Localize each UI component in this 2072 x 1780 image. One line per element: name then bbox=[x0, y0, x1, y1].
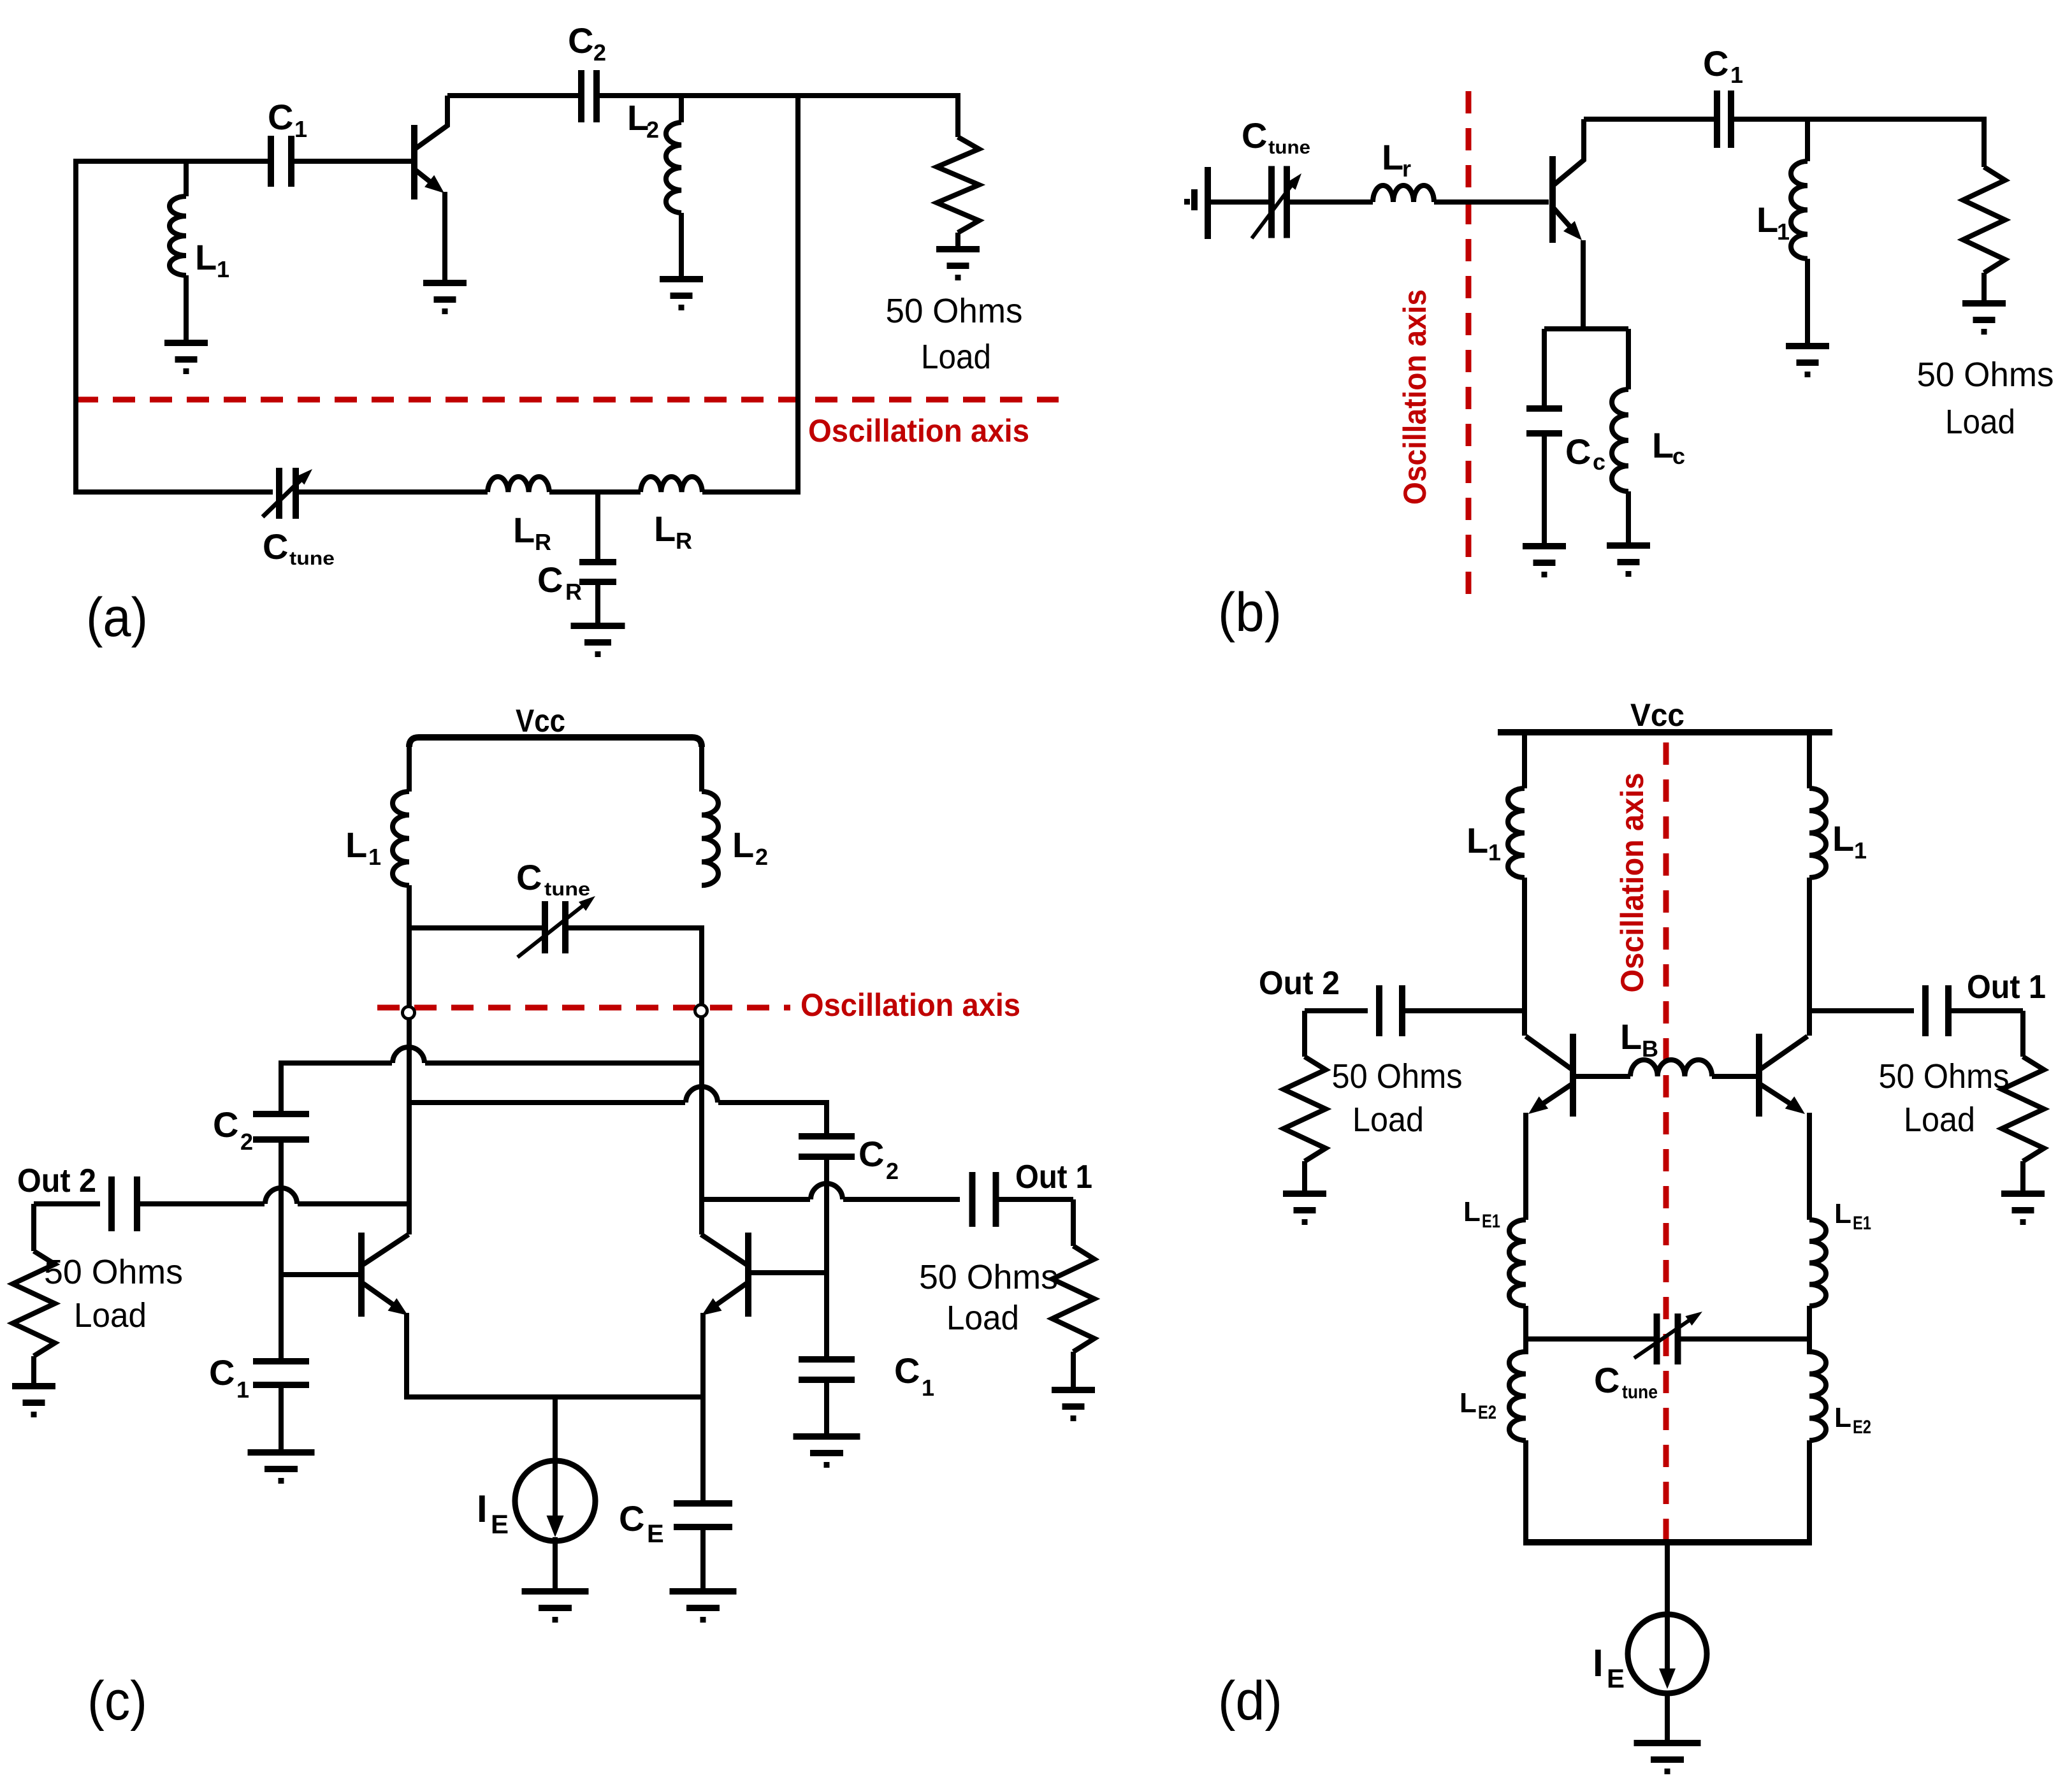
capacitor CE (c) bbox=[674, 1500, 732, 1507]
wire Ctune branch right (d) bbox=[1678, 1336, 1809, 1342]
capacitor CR (a) bbox=[579, 559, 616, 565]
ground Lc (b) bbox=[1607, 542, 1650, 549]
wire LE1 to Ctune left (d) bbox=[1523, 1306, 1528, 1342]
svg-text:c: c bbox=[1672, 443, 1685, 469]
svg-text:Load: Load bbox=[921, 338, 991, 376]
capacitor C1 right (c) bbox=[799, 1356, 855, 1363]
wire LE2 to rail right (d) bbox=[1807, 1440, 1812, 1545]
svg-text:L: L bbox=[345, 825, 367, 865]
svg-text:L: L bbox=[654, 509, 676, 549]
svg-text:C: C bbox=[213, 1104, 238, 1145]
wire left vertical upper (c) bbox=[407, 925, 412, 1234]
svg-text:(a): (a) bbox=[86, 587, 148, 648]
wire C1 to base (a) bbox=[291, 159, 413, 164]
inductor Lr (b) bbox=[1373, 185, 1434, 202]
svg-text:1: 1 bbox=[217, 256, 229, 282]
svg-text:tune: tune bbox=[544, 879, 590, 900]
ground L2 (a) bbox=[660, 276, 703, 282]
resistor 50 Ohms load (b) bbox=[1963, 167, 2005, 273]
variable capacitor Ctune (c) bbox=[542, 901, 548, 953]
wire base right (c) bbox=[750, 1270, 827, 1275]
svg-text:1: 1 bbox=[294, 116, 307, 142]
wire IE to ground (d) bbox=[1665, 1691, 1670, 1743]
capacitor C2 (a) bbox=[578, 70, 584, 122]
svg-text:50 Ohms: 50 Ohms bbox=[886, 292, 1023, 330]
wire load corner (a) bbox=[955, 93, 960, 137]
svg-text:L: L bbox=[1832, 818, 1854, 858]
inductor L1 right (d) bbox=[1809, 788, 1826, 878]
ground IE (d) bbox=[1634, 1740, 1701, 1746]
wire L1 stem (a) bbox=[184, 161, 189, 196]
label Oscillation axis (b) bbox=[1397, 289, 1433, 505]
svg-text:L: L bbox=[1834, 1198, 1851, 1229]
svg-text:(b): (b) bbox=[1218, 582, 1282, 643]
ground load (a) bbox=[936, 246, 980, 252]
wire Out1 to load (c) bbox=[996, 1197, 1073, 1202]
wire cross-coupling B (c) bbox=[409, 1100, 685, 1105]
svg-text:R: R bbox=[676, 528, 692, 554]
wire IE to ground (c) bbox=[553, 1537, 558, 1591]
svg-text:Oscillation axis: Oscillation axis bbox=[808, 413, 1029, 449]
wire IE stem (c) bbox=[553, 1397, 558, 1462]
inductor L2 (c) bbox=[702, 792, 718, 885]
wire load to ground (a) bbox=[955, 233, 960, 249]
svg-text:C: C bbox=[894, 1350, 920, 1391]
svg-text:1: 1 bbox=[1777, 219, 1790, 245]
inductor LR1 (a) bbox=[488, 477, 549, 492]
transistor Q1 (a) bbox=[411, 125, 417, 199]
oscillation axis dashed line (b) bbox=[1466, 91, 1472, 607]
svg-text:50 Ohms: 50 Ohms bbox=[1917, 356, 2054, 394]
ground C1 left (c) bbox=[248, 1449, 315, 1456]
wire top right segment (b) bbox=[1731, 117, 1984, 122]
svg-text:1: 1 bbox=[1854, 837, 1867, 864]
ground L1 (a) bbox=[164, 340, 208, 346]
ground left (b) bbox=[1205, 167, 1211, 239]
svg-text:L: L bbox=[1382, 137, 1403, 177]
wire L1 to Ctune junction (c) bbox=[407, 885, 412, 930]
svg-text:2: 2 bbox=[755, 844, 768, 870]
svg-text:(c): (c) bbox=[87, 1670, 147, 1732]
svg-text:L: L bbox=[1757, 199, 1778, 240]
wire Cc to ground (b) bbox=[1542, 433, 1547, 546]
svg-text:Oscillation axis: Oscillation axis bbox=[1397, 289, 1433, 505]
transistor Q2 right (d) bbox=[1756, 1034, 1762, 1117]
wire C2 top stem left (c) bbox=[279, 1060, 284, 1114]
wire LR2 to feedback (a) bbox=[702, 489, 801, 495]
svg-text:R: R bbox=[565, 579, 582, 605]
inductor LB (d) bbox=[1630, 1060, 1712, 1076]
svg-text:Out 2: Out 2 bbox=[1259, 965, 1340, 1002]
coupling capacitor Out2 (d) bbox=[1376, 985, 1382, 1036]
svg-text:1: 1 bbox=[1730, 62, 1743, 88]
svg-text:2: 2 bbox=[593, 40, 606, 66]
ground L1 (b) bbox=[1786, 343, 1829, 349]
wire L1 stem left (d) bbox=[1522, 732, 1527, 788]
capacitor C1 (b) bbox=[1714, 90, 1720, 148]
wire base left to LB (d) bbox=[1575, 1074, 1630, 1079]
svg-text:2: 2 bbox=[886, 1158, 899, 1184]
wire LB to base right (d) bbox=[1712, 1074, 1757, 1079]
capacitor C1 (a) bbox=[268, 136, 274, 187]
svg-text:E: E bbox=[1607, 1663, 1625, 1693]
wire load corner left (d) bbox=[1302, 1011, 1307, 1057]
svg-text:tune: tune bbox=[289, 548, 335, 569]
svg-text:50 Ohms: 50 Ohms bbox=[44, 1253, 183, 1291]
wire CR stem (a) bbox=[595, 492, 600, 562]
wire L1 to collector right (d) bbox=[1807, 878, 1812, 1036]
wire load to ground left (d) bbox=[1302, 1161, 1307, 1194]
wire Out2 to collector (c) bbox=[137, 1201, 264, 1206]
wire L1 stem (b) bbox=[1805, 119, 1810, 161]
wire L2 to ground (a) bbox=[679, 213, 684, 279]
wire CE to ground (c) bbox=[700, 1527, 706, 1591]
svg-text:1: 1 bbox=[368, 844, 381, 870]
wire emitter vertical (b) bbox=[1581, 240, 1586, 331]
svg-text:50 Ohms: 50 Ohms bbox=[1332, 1057, 1463, 1096]
wire Out1 to load (d) bbox=[1948, 1008, 2023, 1013]
svg-text:1: 1 bbox=[922, 1375, 934, 1401]
wire base horizontal (a) bbox=[76, 159, 272, 164]
wire CE stem (c) bbox=[700, 1397, 706, 1503]
wire left vertical (a) bbox=[73, 159, 78, 495]
transistor Q1 left (c) bbox=[358, 1233, 365, 1317]
ground load left (d) bbox=[1283, 1190, 1326, 1197]
transistor Q1 (b) bbox=[1549, 156, 1556, 243]
svg-text:C: C bbox=[1703, 43, 1728, 83]
wire load corner left (c) bbox=[31, 1204, 36, 1251]
svg-text:I: I bbox=[1593, 1642, 1604, 1684]
wire L1 to ground (b) bbox=[1805, 259, 1810, 346]
wire C2-C1 vertical right (c) bbox=[824, 1157, 829, 1359]
wire feedback vertical (a) bbox=[795, 96, 801, 495]
oscillation axis dashed line (d) bbox=[1663, 742, 1669, 1539]
wire emitter vertical left (d) bbox=[1523, 1113, 1528, 1220]
ground load left (c) bbox=[12, 1383, 55, 1389]
inductor LE2 left (d) bbox=[1509, 1352, 1526, 1440]
Vcc rail (d) bbox=[1498, 729, 1832, 735]
svg-text:C: C bbox=[859, 1134, 884, 1174]
svg-text:L: L bbox=[1834, 1402, 1851, 1433]
svg-text:C: C bbox=[1594, 1360, 1619, 1400]
ground load right (c) bbox=[1052, 1387, 1095, 1393]
wire Ctune to LR1 (a) bbox=[294, 489, 488, 495]
inductor L1 left (d) bbox=[1508, 788, 1525, 878]
wire ground to Ctune (b) bbox=[1208, 199, 1271, 205]
wire Ctune branch left (d) bbox=[1526, 1336, 1657, 1342]
wire bottom rail (d) bbox=[1523, 1539, 1812, 1545]
svg-text:r: r bbox=[1402, 156, 1411, 182]
inductor LE1 right (d) bbox=[1809, 1220, 1826, 1306]
wire emitter vertical right (c) bbox=[700, 1313, 706, 1400]
oscillation axis dashed line (a) bbox=[76, 397, 1059, 403]
wire right vertical upper (c) bbox=[699, 925, 704, 1234]
svg-text:Out 2: Out 2 bbox=[17, 1162, 96, 1199]
svg-text:Out 1: Out 1 bbox=[1015, 1159, 1092, 1196]
wire emitter vertical right (d) bbox=[1807, 1113, 1812, 1220]
svg-text:L: L bbox=[1463, 1196, 1481, 1227]
svg-text:E: E bbox=[647, 1520, 664, 1548]
svg-text:L: L bbox=[195, 237, 217, 277]
svg-text:1: 1 bbox=[236, 1377, 249, 1403]
wire load to ground left (c) bbox=[31, 1356, 36, 1386]
wire Ctune branch right (c) bbox=[565, 925, 702, 930]
wire load corner right (d) bbox=[2020, 1011, 2025, 1057]
variable capacitor Ctune (a) bbox=[276, 468, 282, 519]
wire IE stem (d) bbox=[1665, 1542, 1670, 1614]
svg-text:C: C bbox=[209, 1352, 235, 1393]
svg-text:L: L bbox=[1620, 1017, 1642, 1057]
svg-text:Load: Load bbox=[1904, 1101, 1975, 1139]
wire Lc to ground (b) bbox=[1626, 491, 1631, 546]
inductor Lc (b) bbox=[1612, 389, 1628, 491]
transistor Q1 left (d) bbox=[1570, 1034, 1576, 1117]
wire C1 to ground left (c) bbox=[279, 1385, 284, 1452]
svg-text:E2: E2 bbox=[1478, 1402, 1496, 1423]
svg-text:L: L bbox=[1460, 1387, 1477, 1419]
transistor Q2 right (c) bbox=[745, 1233, 751, 1317]
wire Ctune branch left (c) bbox=[409, 925, 545, 930]
resistor 50 Ohms load right (d) bbox=[2002, 1057, 2044, 1161]
svg-text:E1: E1 bbox=[1853, 1213, 1871, 1234]
wire CR to ground (a) bbox=[595, 582, 600, 626]
wire emitter vertical left (c) bbox=[404, 1313, 409, 1400]
svg-text:L: L bbox=[513, 510, 535, 550]
wire LE1 to Ctune right (d) bbox=[1807, 1306, 1812, 1342]
wire load to ground (b) bbox=[1981, 273, 1987, 303]
svg-text:Out 1: Out 1 bbox=[1967, 969, 2046, 1006]
svg-text:Vcc: Vcc bbox=[1630, 697, 1684, 733]
svg-text:2: 2 bbox=[240, 1129, 253, 1155]
svg-text:Vcc: Vcc bbox=[516, 703, 565, 739]
svg-text:C: C bbox=[568, 20, 593, 61]
ground CE (c) bbox=[670, 1588, 737, 1595]
svg-text:C: C bbox=[619, 1498, 644, 1538]
inductor LE2 right (d) bbox=[1809, 1352, 1826, 1440]
coupling capacitor Out2 (c) bbox=[108, 1176, 115, 1231]
wire L1 stem right (d) bbox=[1807, 732, 1812, 788]
svg-text:L: L bbox=[1467, 820, 1488, 860]
svg-text:E2: E2 bbox=[1853, 1417, 1871, 1438]
inductor L1 (c) bbox=[393, 792, 409, 885]
wire Out2 lead (c) bbox=[34, 1201, 100, 1206]
svg-text:E1: E1 bbox=[1482, 1211, 1500, 1232]
svg-text:Load: Load bbox=[1352, 1101, 1424, 1139]
wire Lr to base (b) bbox=[1434, 199, 1549, 205]
inductor L1 (a) bbox=[170, 196, 186, 275]
ground IE (c) bbox=[522, 1588, 589, 1595]
wire LR1 to LR2 (a) bbox=[549, 489, 641, 495]
wire load corner (b) bbox=[1981, 117, 1987, 167]
svg-text:C: C bbox=[1565, 431, 1591, 472]
svg-text:L: L bbox=[732, 825, 754, 865]
capacitor C1 left (c) bbox=[253, 1358, 309, 1364]
ground CR (a) bbox=[571, 623, 625, 629]
ground load right (d) bbox=[2001, 1190, 2045, 1197]
label Oscillation axis (d) bbox=[1614, 773, 1650, 993]
svg-text:tune: tune bbox=[1268, 137, 1310, 158]
svg-text:Load: Load bbox=[1945, 403, 2015, 441]
inductor LR2 (a) bbox=[641, 477, 702, 492]
ground load (b) bbox=[1962, 300, 2006, 307]
wire load corner right (c) bbox=[1071, 1199, 1076, 1246]
resistor 50 Ohms load left (c) bbox=[13, 1251, 55, 1356]
wire Out1 from collector (c) bbox=[701, 1197, 810, 1202]
svg-text:Oscillation axis: Oscillation axis bbox=[1614, 773, 1650, 993]
capacitor C2 right (c) bbox=[799, 1133, 855, 1140]
wire L2 stem (c) bbox=[699, 742, 704, 792]
resistor 50 Ohms load right (c) bbox=[1052, 1246, 1094, 1352]
svg-text:C: C bbox=[516, 857, 542, 897]
wire top right segment (a) bbox=[600, 93, 958, 98]
inductor LE1 left (d) bbox=[1509, 1220, 1526, 1306]
ground C1 right (c) bbox=[793, 1433, 860, 1440]
svg-text:C: C bbox=[263, 526, 288, 567]
variable capacitor Ctune (b) bbox=[1268, 166, 1275, 238]
ground Cc (b) bbox=[1523, 543, 1566, 549]
wire Ctune to Lr (b) bbox=[1287, 199, 1373, 205]
svg-text:Load: Load bbox=[74, 1296, 147, 1335]
Vcc rail (c) bbox=[409, 737, 702, 747]
wire Q1 emitter vertical (a) bbox=[442, 192, 447, 283]
wire L1 to collector left (d) bbox=[1522, 878, 1527, 1036]
wire bottom left segment (a) bbox=[76, 489, 273, 495]
svg-text:2: 2 bbox=[646, 117, 659, 143]
wire base left (c) bbox=[281, 1272, 358, 1277]
variable capacitor Ctune (d) bbox=[1654, 1313, 1660, 1364]
wire bottom rail (c) bbox=[407, 1394, 703, 1400]
svg-text:L: L bbox=[1652, 425, 1674, 465]
capacitor Cc (b) bbox=[1526, 405, 1562, 412]
wire Out2 to collector (d) bbox=[1402, 1008, 1525, 1013]
svg-text:c: c bbox=[1593, 449, 1605, 475]
svg-text:Oscillation axis: Oscillation axis bbox=[801, 987, 1020, 1023]
capacitor C2 left (c) bbox=[253, 1111, 309, 1117]
wire LE2 to rail left (d) bbox=[1523, 1440, 1528, 1545]
coupling capacitor Out1 (d) bbox=[1922, 985, 1929, 1036]
wire L1 stem (c) bbox=[407, 742, 412, 792]
svg-text:(d): (d) bbox=[1218, 1670, 1282, 1732]
current source IE (c) bbox=[515, 1461, 595, 1541]
wire load to ground right (c) bbox=[1071, 1352, 1076, 1390]
wire Out1 lead (d) bbox=[1809, 1008, 1914, 1013]
inductor L1 (b) bbox=[1791, 161, 1808, 259]
svg-text:Load: Load bbox=[946, 1299, 1019, 1337]
resistor 50 Ohms load left (d) bbox=[1284, 1057, 1326, 1161]
wire L2 stem (a) bbox=[679, 96, 684, 122]
wire load to ground right (d) bbox=[2020, 1161, 2025, 1194]
svg-text:C: C bbox=[268, 97, 293, 137]
node right (c) bbox=[695, 1005, 707, 1017]
svg-text:C: C bbox=[1242, 115, 1267, 156]
wire Lc stem (b) bbox=[1626, 329, 1631, 389]
svg-text:C: C bbox=[537, 560, 563, 600]
wire collector top left segment (b) bbox=[1584, 117, 1717, 122]
current source IE (d) bbox=[1628, 1614, 1707, 1693]
wire C1 to ground right (c) bbox=[824, 1380, 829, 1436]
wire cross-coupling A (c) bbox=[281, 1060, 392, 1066]
wire C2-C1 vertical left (c) bbox=[279, 1140, 284, 1361]
svg-text:B: B bbox=[1642, 1036, 1658, 1062]
svg-text:1: 1 bbox=[1488, 839, 1501, 865]
svg-text:R: R bbox=[535, 529, 551, 555]
wire emitter block top bar (b) bbox=[1544, 326, 1628, 331]
svg-text:I: I bbox=[477, 1487, 488, 1530]
svg-text:E: E bbox=[491, 1509, 509, 1539]
svg-text:50 Ohms: 50 Ohms bbox=[1879, 1057, 2010, 1096]
wire Cc stem (b) bbox=[1542, 329, 1547, 409]
wire L1 to ground (a) bbox=[184, 275, 189, 343]
svg-text:50 Ohms: 50 Ohms bbox=[919, 1258, 1058, 1296]
resistor 50 Ohms load (a) bbox=[937, 137, 979, 233]
oscillation axis dashed line (c) bbox=[377, 1005, 790, 1011]
svg-text:tune: tune bbox=[1622, 1382, 1658, 1403]
coupling capacitor Out1 (c) bbox=[969, 1172, 976, 1227]
node left (c) bbox=[403, 1007, 415, 1019]
wire collector top left segment (a) bbox=[447, 93, 578, 98]
wire Out2 lead (d) bbox=[1305, 1008, 1368, 1013]
ground Q1 emitter (a) bbox=[423, 280, 467, 286]
inductor L2 (a) bbox=[666, 122, 681, 213]
